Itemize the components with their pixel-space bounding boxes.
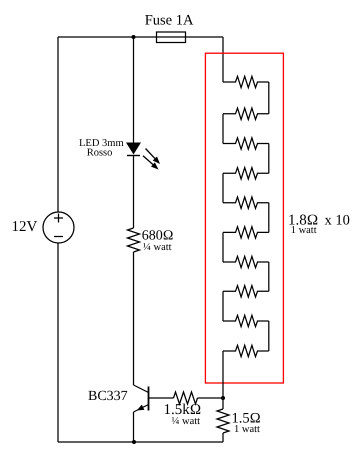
wire base lead <box>149 397 174 399</box>
wire left vertical lower (source to bottom wire) <box>57 243 59 442</box>
svg-text:¼ watt: ¼ watt <box>172 416 201 427</box>
wire connector R2-R3 left <box>222 114 224 144</box>
resistor chain R10 1.8ohm <box>223 345 269 356</box>
wire connector R9-R10 right <box>268 321 270 351</box>
resistor chain R3 1.8ohm <box>223 138 269 149</box>
resistor chain R2 1.8ohm <box>223 108 269 119</box>
node junction dot right (base resistor, chain, 1.5 ohm) <box>221 396 225 400</box>
wire LED to 680 ohm resistor <box>133 156 135 229</box>
svg-text:12V: 12V <box>12 219 38 235</box>
resistor 680 ohm <box>128 228 140 252</box>
wire left vertical upper (source to top wire) <box>57 37 59 212</box>
resistor 1.5 ohm <box>217 409 229 433</box>
resistor 1.5k ohm <box>174 392 198 404</box>
resistor chain R5 1.8ohm <box>223 197 269 208</box>
LED D1 3mm red <box>126 143 160 170</box>
resistor chain R6 1.8ohm <box>223 227 269 238</box>
wire 1.5 ohm to bottom wire <box>222 433 224 442</box>
resistor chain R7 1.8ohm <box>223 256 269 267</box>
node junction dot bottom (emitter to bottom wire) <box>132 440 136 444</box>
wire connector R6-R7 left <box>222 232 224 262</box>
wire connector R1-R2 right <box>268 82 270 114</box>
resistor chain R8 1.8ohm <box>223 286 269 297</box>
resistor chain R1 1.8ohm <box>223 76 269 87</box>
wire middle branch upper (top junction to LED) <box>133 37 135 143</box>
wire right branch vertical entering red box <box>222 37 224 82</box>
voltage source V1 12V <box>43 212 74 243</box>
wire connector R5-R6 right <box>268 203 270 233</box>
resistor chain R4 1.8ohm <box>223 168 269 179</box>
wire connector R7-R8 right <box>268 262 270 291</box>
wire fuse to right branch corner <box>186 36 224 38</box>
svg-text:Rosso: Rosso <box>87 148 113 159</box>
transistor Q1 BC337 <box>134 385 149 412</box>
svg-text:¼ watt: ¼ watt <box>143 242 172 253</box>
wire 680 ohm to transistor collector <box>133 252 135 385</box>
node junction dot top (middle branch to top wire) <box>132 35 136 39</box>
svg-text:BC337: BC337 <box>88 389 128 404</box>
wire top horizontal from source to fuse <box>58 36 157 38</box>
svg-text:1 watt: 1 watt <box>234 424 260 435</box>
wire connector R8-R9 left <box>222 291 224 321</box>
svg-text:x 10: x 10 <box>325 212 350 228</box>
fuse F1 <box>157 32 186 43</box>
wire connector R4-R5 left <box>222 173 224 202</box>
svg-text:1 watt: 1 watt <box>291 225 317 236</box>
wire chain exit to junction <box>222 351 224 398</box>
svg-text:Fuse 1A: Fuse 1A <box>145 13 194 29</box>
wire connector R3-R4 right <box>268 144 270 174</box>
wire 1.5k ohm to junction <box>198 397 224 399</box>
resistor chain R9 1.8ohm <box>223 315 269 326</box>
wire bottom horizontal <box>58 441 223 443</box>
wire emitter to bottom wire <box>133 412 135 442</box>
wire junction to 1.5 ohm resistor <box>222 398 224 409</box>
load module red box <box>205 53 283 383</box>
